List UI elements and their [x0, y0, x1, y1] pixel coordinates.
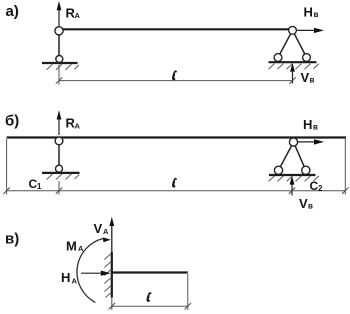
- svg-text:в: в: [310, 76, 315, 85]
- svg-text:H: H: [61, 270, 70, 285]
- svg-text:A: A: [78, 244, 84, 253]
- svg-text:V: V: [301, 70, 310, 85]
- svg-text:A: A: [75, 121, 81, 130]
- svg-text:V: V: [299, 196, 308, 211]
- svg-text:1: 1: [37, 182, 42, 191]
- svg-text:в: в: [314, 10, 319, 19]
- svg-text:M: M: [66, 238, 77, 253]
- svg-text:в: в: [313, 123, 318, 132]
- svg-text:H: H: [303, 117, 312, 132]
- svg-text:б): б): [5, 112, 19, 129]
- svg-text:V: V: [94, 221, 103, 236]
- svg-text:H: H: [304, 5, 313, 20]
- svg-text:2: 2: [318, 184, 323, 193]
- svg-text:A: A: [75, 11, 81, 20]
- svg-text:A: A: [103, 227, 109, 236]
- svg-text:а): а): [6, 3, 19, 20]
- svg-text:в): в): [5, 231, 19, 248]
- svg-text:в: в: [308, 202, 313, 211]
- svg-text:A: A: [72, 276, 78, 285]
